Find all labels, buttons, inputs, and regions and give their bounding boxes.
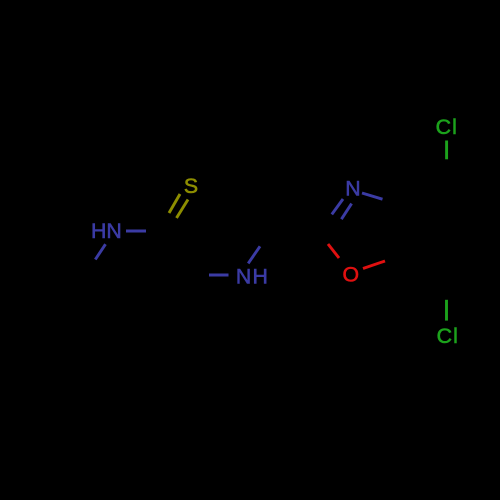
bond N(HN)-Ca down-left stub xyxy=(95,244,105,259)
C=S double bond line2 xyxy=(177,200,189,219)
Cl(top)-C4 stub xyxy=(445,141,448,160)
N3=C2 inner line stub xyxy=(341,204,351,220)
Cl(bottom)-C7 stub xyxy=(445,300,448,321)
svg-text:NH: NH xyxy=(236,265,269,289)
C=S double bond line1 xyxy=(169,194,180,213)
bond N(HN)-C1 right stub xyxy=(126,230,146,233)
bond N(NH)-Cc up-right stub xyxy=(248,246,260,263)
svg-text:Cl: Cl xyxy=(437,324,460,348)
N3=C2 main line stub xyxy=(332,199,343,214)
svg-text:Cl: Cl xyxy=(436,115,459,139)
svg-text:N: N xyxy=(345,177,360,201)
N3-C3a stub xyxy=(362,193,383,199)
bond Cb-N(NH) stub xyxy=(209,274,229,277)
svg-text:O: O xyxy=(343,263,360,287)
O1-C2 stub xyxy=(328,244,339,258)
svg-text:S: S xyxy=(184,174,198,198)
O1-C7a stub xyxy=(363,261,385,269)
svg-text:HN: HN xyxy=(91,219,122,243)
